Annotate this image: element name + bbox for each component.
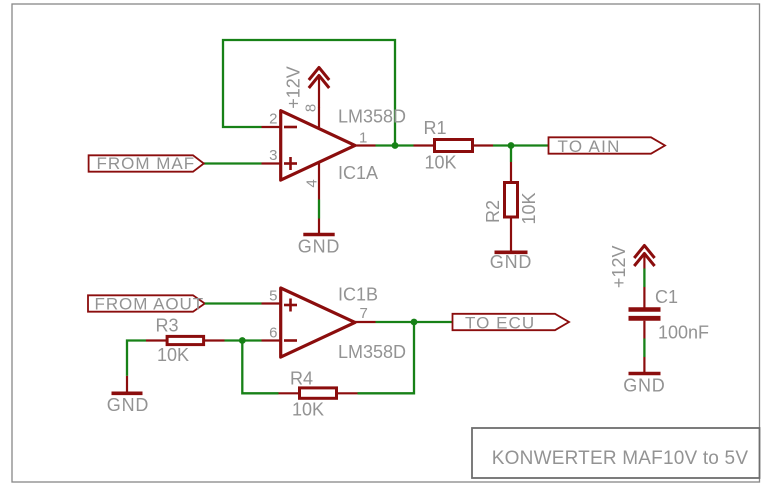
svg-text:+12V: +12V	[284, 66, 304, 109]
net flag FROM MAF	[89, 155, 204, 171]
svg-text:FROM AOUT: FROM AOUT	[95, 295, 205, 314]
svg-text:IC1B: IC1B	[338, 285, 378, 305]
capacitor C1	[629, 287, 661, 339]
wire R3 to IC1B IN-	[225, 339, 262, 341]
ground R2	[495, 237, 528, 252]
net flag TO AIN	[549, 137, 666, 153]
svg-text:2: 2	[269, 111, 277, 128]
wire IC1A out to R1	[376, 144, 414, 146]
svg-text:R3: R3	[156, 316, 179, 336]
wire FROM AOUT to IC1B IN+	[205, 302, 262, 304]
ground R3	[112, 376, 143, 393]
junction node out IC1A	[392, 142, 399, 149]
wire node AIN to R2	[510, 146, 512, 163]
wire R3 to ground corner	[127, 341, 146, 376]
junction node feedback	[239, 337, 246, 344]
svg-text:R2: R2	[483, 200, 503, 223]
svg-text:GND: GND	[107, 395, 149, 415]
power +12V C1	[634, 246, 654, 269]
svg-text:FROM MAF: FROM MAF	[97, 154, 196, 173]
op-amp IC1B	[262, 288, 376, 357]
ground IC1A pin 4	[303, 219, 334, 235]
svg-text:1: 1	[359, 130, 367, 147]
svg-text:8: 8	[303, 104, 320, 112]
svg-text:R4: R4	[290, 369, 313, 389]
junction node AIN	[508, 142, 515, 149]
resistor R3	[146, 336, 225, 344]
wire node ECU to flag TO ECU	[414, 321, 453, 323]
title block	[472, 428, 760, 478]
svg-text:10K: 10K	[292, 400, 324, 420]
wire +12V to C1	[643, 269, 645, 288]
svg-text:4: 4	[303, 179, 320, 187]
svg-text:100nF: 100nF	[658, 323, 709, 343]
resistor R4	[279, 388, 358, 398]
svg-text:C1: C1	[655, 287, 678, 307]
svg-text:IC1A: IC1A	[338, 163, 378, 183]
svg-text:TO AIN: TO AIN	[558, 137, 621, 156]
svg-text:5: 5	[269, 288, 277, 305]
wire node AIN to flag TO AIN	[511, 144, 549, 146]
svg-text:3: 3	[269, 147, 277, 164]
svg-text:LM358D: LM358D	[338, 107, 406, 127]
power +12V IC1A pin 8	[309, 68, 329, 108]
wire node feedback to R4	[242, 341, 278, 394]
resistor R1	[414, 140, 494, 152]
svg-text:GND: GND	[298, 237, 340, 257]
ground C1	[629, 357, 661, 374]
svg-text:TO ECU: TO ECU	[465, 314, 535, 333]
wire IC1B out to node ECU	[376, 321, 415, 323]
net flag FROM AOUT	[88, 295, 205, 311]
junction node ECU	[411, 319, 418, 326]
svg-text:7: 7	[360, 305, 368, 322]
svg-text:10K: 10K	[425, 153, 457, 173]
svg-text:+12V: +12V	[609, 246, 629, 289]
wire IC1A pin4 to GND	[318, 200, 320, 219]
svg-text:6: 6	[269, 325, 277, 342]
resistor R2	[505, 162, 518, 237]
wire C1 to GND	[643, 339, 645, 358]
wire R4 to IC1B output node	[358, 322, 415, 393]
svg-text:KONWERTER MAF10V to 5V: KONWERTER MAF10V to 5V	[492, 448, 749, 469]
wire FROM MAF to IC1A IN+	[204, 162, 262, 164]
svg-text:GND: GND	[490, 252, 532, 272]
svg-text:GND: GND	[623, 376, 665, 396]
wire IC1A feedback output to IN-	[223, 40, 395, 146]
svg-text:10K: 10K	[157, 345, 189, 365]
op-amp IC1A	[262, 107, 376, 200]
svg-text:LM358D: LM358D	[338, 342, 406, 362]
svg-text:10K: 10K	[519, 192, 539, 224]
net flag TO ECU	[453, 314, 570, 330]
wire R1 to node AIN	[493, 144, 511, 146]
svg-text:R1: R1	[424, 118, 447, 138]
